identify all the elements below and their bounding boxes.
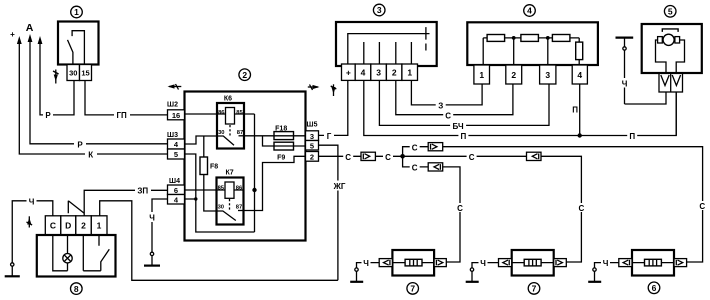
svg-text:Ч: Ч xyxy=(603,259,609,268)
svg-text:30: 30 xyxy=(218,205,224,211)
svg-text:П: П xyxy=(629,132,635,141)
svg-text:С: С xyxy=(457,204,463,213)
svg-text:Ч: Ч xyxy=(480,259,486,268)
svg-text:F9: F9 xyxy=(277,155,285,162)
svg-text:F8: F8 xyxy=(210,163,218,170)
svg-text:Ч: Ч xyxy=(622,79,628,88)
svg-text:1: 1 xyxy=(407,68,412,78)
svg-text:+: + xyxy=(10,30,15,39)
svg-text:5: 5 xyxy=(174,150,178,159)
svg-text:5: 5 xyxy=(668,7,673,17)
svg-text:30: 30 xyxy=(218,130,224,136)
svg-text:2: 2 xyxy=(242,70,247,80)
svg-text:1: 1 xyxy=(97,221,102,231)
svg-text:3: 3 xyxy=(545,70,550,80)
svg-text:3: 3 xyxy=(376,68,381,78)
svg-text:87: 87 xyxy=(237,130,243,136)
svg-text:2: 2 xyxy=(392,68,397,78)
svg-text:А: А xyxy=(26,22,34,34)
svg-text:16: 16 xyxy=(172,111,180,120)
svg-text:С: С xyxy=(385,153,391,162)
svg-text:D: D xyxy=(65,221,71,231)
svg-text:З: З xyxy=(438,102,443,111)
svg-text:Ш2: Ш2 xyxy=(167,102,178,109)
svg-text:ЖГ: ЖГ xyxy=(333,182,346,191)
svg-text:Ш5: Ш5 xyxy=(307,122,318,129)
svg-text:ГП: ГП xyxy=(116,111,127,120)
svg-text:Ч: Ч xyxy=(363,259,369,268)
svg-text:30: 30 xyxy=(69,69,77,78)
svg-text:+: + xyxy=(346,68,351,78)
svg-text:C: C xyxy=(50,221,56,231)
svg-text:К: К xyxy=(88,151,93,160)
svg-text:8: 8 xyxy=(74,284,79,294)
svg-text:2: 2 xyxy=(310,153,314,162)
svg-text:С: С xyxy=(445,111,451,120)
svg-text:4: 4 xyxy=(577,70,582,80)
svg-text:1: 1 xyxy=(479,70,484,80)
svg-text:86: 86 xyxy=(218,110,225,116)
svg-text:К7: К7 xyxy=(226,170,234,177)
svg-text:7: 7 xyxy=(410,284,415,294)
svg-text:15: 15 xyxy=(81,69,89,78)
svg-text:Ш3: Ш3 xyxy=(167,132,178,139)
svg-text:ЗП: ЗП xyxy=(137,187,148,196)
svg-text:2: 2 xyxy=(511,70,516,80)
svg-text:С: С xyxy=(469,153,475,162)
svg-text:6: 6 xyxy=(652,283,657,293)
svg-text:87: 87 xyxy=(236,205,242,211)
svg-text:6: 6 xyxy=(174,186,178,195)
svg-text:П: П xyxy=(572,106,578,115)
svg-text:С: С xyxy=(412,164,418,173)
svg-text:7: 7 xyxy=(532,284,537,294)
svg-text:С: С xyxy=(699,202,705,211)
svg-text:К6: К6 xyxy=(224,96,232,103)
svg-text:85: 85 xyxy=(236,110,243,116)
svg-text:С: С xyxy=(345,153,351,162)
svg-text:Ч: Ч xyxy=(149,214,155,223)
svg-text:3: 3 xyxy=(377,5,382,15)
svg-text:П: П xyxy=(461,132,467,141)
svg-text:С: С xyxy=(412,143,418,152)
svg-text:Р: Р xyxy=(45,111,51,120)
svg-text:1: 1 xyxy=(74,7,79,17)
svg-text:Р: Р xyxy=(77,141,83,150)
svg-text:Ч: Ч xyxy=(29,197,35,206)
svg-text:5: 5 xyxy=(310,141,314,150)
svg-text:2: 2 xyxy=(81,221,86,231)
svg-text:Ш4: Ш4 xyxy=(169,178,180,185)
svg-text:БЧ: БЧ xyxy=(453,122,464,131)
svg-text:3: 3 xyxy=(310,132,314,141)
svg-text:Г: Г xyxy=(327,132,332,141)
svg-text:4: 4 xyxy=(361,68,366,78)
svg-text:4: 4 xyxy=(527,6,532,16)
svg-text:С: С xyxy=(579,204,585,213)
